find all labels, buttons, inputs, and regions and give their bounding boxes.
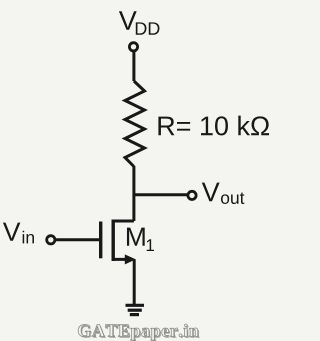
wire node to Vout terminal [134, 193, 187, 196]
node VDD label [119, 11, 160, 34]
resistor value label R= 10 kOhm [158, 116, 269, 136]
wire source to ground [133, 259, 136, 305]
resistor R1 10 kOhm [125, 81, 145, 167]
ground bar 3 [130, 313, 139, 316]
watermark GATEpaper.in [78, 324, 200, 341]
wire resistor to drain node [132, 166, 135, 221]
ground bar 2 [128, 309, 142, 312]
terminal VDD [129, 43, 137, 51]
M1 channel bar [111, 220, 114, 262]
ground [126, 305, 145, 314]
transistor M1 [101, 220, 136, 265]
wire Vin to gate [55, 238, 99, 241]
M1 source arrow [125, 254, 136, 264]
transistor label M1 [127, 228, 154, 251]
M1 gate bar [99, 222, 102, 259]
M1 source lead [113, 258, 130, 261]
terminal Vin [47, 236, 55, 244]
ground bar 1 [126, 304, 145, 307]
node Vin label [3, 223, 34, 244]
M1 drain lead [113, 220, 134, 223]
wire VDD to resistor [132, 51, 135, 81]
terminal Vout [188, 191, 196, 199]
node Vout label [202, 183, 245, 204]
